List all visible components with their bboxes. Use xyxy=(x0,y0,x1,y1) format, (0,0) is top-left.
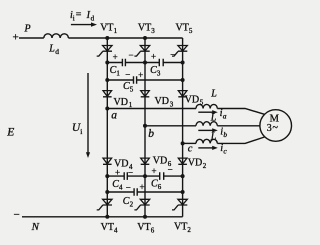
svg-text:4: 4 xyxy=(114,226,118,234)
svg-text:VD: VD xyxy=(155,96,169,107)
svg-text:+: + xyxy=(138,70,143,80)
svg-text:5: 5 xyxy=(189,27,193,35)
svg-text:d: d xyxy=(91,14,95,22)
svg-text:5: 5 xyxy=(200,99,204,107)
svg-text:c: c xyxy=(188,144,193,155)
svg-text:VT: VT xyxy=(176,23,189,34)
svg-text:b: b xyxy=(148,128,154,140)
svg-text:−: − xyxy=(14,209,20,221)
svg-text:−: − xyxy=(170,50,175,60)
svg-text:6: 6 xyxy=(158,183,162,191)
svg-text:+: + xyxy=(113,52,118,62)
svg-text:L: L xyxy=(210,113,217,124)
svg-text:=: = xyxy=(76,10,82,21)
svg-text:N: N xyxy=(31,221,40,233)
svg-text:3: 3 xyxy=(157,70,161,78)
svg-text:−: − xyxy=(126,183,131,193)
svg-text:d: d xyxy=(55,47,59,56)
svg-text:−: − xyxy=(129,50,134,60)
svg-text:2: 2 xyxy=(203,162,207,170)
svg-text:~: ~ xyxy=(273,123,279,134)
svg-text:L: L xyxy=(48,44,55,55)
svg-text:−: − xyxy=(125,70,130,80)
svg-text:6: 6 xyxy=(151,226,155,234)
svg-text:VD: VD xyxy=(114,97,128,108)
svg-text:a: a xyxy=(223,112,227,121)
svg-text:4: 4 xyxy=(119,184,123,192)
svg-text:b: b xyxy=(223,130,227,139)
svg-text:+: + xyxy=(152,166,157,176)
svg-text:2: 2 xyxy=(187,226,191,234)
svg-text:L: L xyxy=(210,89,217,100)
svg-text:a: a xyxy=(111,109,117,121)
svg-text:+: + xyxy=(140,182,145,192)
svg-text:VT: VT xyxy=(174,222,187,233)
svg-text:VT: VT xyxy=(101,222,114,233)
svg-text:E: E xyxy=(6,126,14,138)
svg-text:+: + xyxy=(13,32,19,44)
svg-text:VD: VD xyxy=(185,94,199,105)
svg-text:VT: VT xyxy=(100,23,113,34)
svg-text:3: 3 xyxy=(151,27,155,35)
svg-text:2: 2 xyxy=(130,201,134,209)
svg-text:3: 3 xyxy=(267,123,272,134)
svg-text:−: − xyxy=(168,164,173,174)
svg-text:5: 5 xyxy=(130,86,134,94)
svg-text:1: 1 xyxy=(116,70,120,78)
svg-text:−: − xyxy=(128,168,133,178)
svg-text:VD: VD xyxy=(153,156,167,167)
svg-text:3: 3 xyxy=(170,100,174,108)
svg-text:1: 1 xyxy=(129,101,133,109)
svg-text:i: i xyxy=(80,127,82,136)
svg-text:+: + xyxy=(151,51,156,61)
svg-text:VT: VT xyxy=(138,23,151,34)
svg-text:VT: VT xyxy=(137,222,150,233)
svg-text:1: 1 xyxy=(114,27,118,35)
svg-text:P: P xyxy=(24,23,31,34)
svg-text:i: i xyxy=(73,14,75,22)
svg-text:VD: VD xyxy=(188,158,202,169)
svg-text:+: + xyxy=(115,167,120,177)
svg-text:L: L xyxy=(210,132,217,143)
